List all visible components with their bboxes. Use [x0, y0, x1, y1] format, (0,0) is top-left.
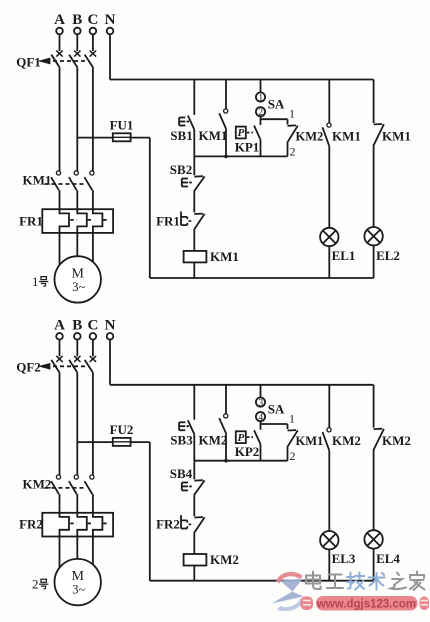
svg-text:KP1: KP1	[235, 140, 260, 155]
svg-text:C: C	[87, 317, 98, 333]
wire rail to SB3	[193, 385, 195, 420]
wire A to motor	[59, 536, 61, 568]
link box to contact	[247, 436, 253, 438]
overload NC contact FR2	[194, 516, 203, 518]
wire SA branch right	[261, 118, 288, 120]
svg-text:KM1: KM1	[23, 173, 52, 188]
pressure switch contact KP1 (NO)	[254, 126, 260, 140]
wire A breaker to contactor	[59, 373, 61, 476]
svg-text:KM2: KM2	[199, 432, 228, 447]
overload linkage (dashed)	[70, 219, 76, 221]
wire B to motor	[76, 233, 78, 256]
glyph hao of motor number	[41, 277, 47, 280]
terminal B	[74, 333, 81, 340]
aux NC contact KM2 for EL4	[374, 428, 383, 430]
glyph shu	[376, 573, 378, 590]
contactor coil KM2	[184, 554, 207, 566]
terminal N	[107, 333, 114, 340]
svg-text:3~: 3~	[72, 280, 85, 294]
aux NO contact KM2 for EL3	[327, 428, 331, 432]
stop pushbutton SB2 (NC)	[194, 175, 203, 177]
wire rail to KM1 aux	[225, 80, 227, 109]
glyph gong	[327, 575, 343, 589]
wire phase C to breaker	[92, 340, 94, 357]
svg-text:P: P	[238, 127, 245, 139]
terminal B	[74, 28, 81, 35]
node line joining branches	[194, 460, 287, 462]
glyph ji	[348, 573, 351, 589]
control bottom rail	[150, 277, 374, 279]
contactor linkage (dashed)	[45, 487, 87, 489]
wire coil to bottom rail	[193, 262, 195, 278]
svg-text:KP2: KP2	[235, 444, 260, 459]
glyph dian	[312, 572, 314, 586]
svg-text:KM1: KM1	[210, 249, 239, 264]
interlock NC contact KM2	[288, 124, 297, 126]
selector SA position 2	[256, 107, 265, 116]
svg-text:SA: SA	[268, 401, 285, 416]
link box to contact	[247, 132, 253, 134]
contactor KM1 main contacts	[56, 171, 60, 175]
heater element at x=92.9	[93, 513, 103, 536]
wire tap phase B to fuse FU1	[77, 137, 150, 139]
svg-text:KM2: KM2	[23, 476, 52, 491]
wire phase B to breaker	[76, 34, 78, 51]
svg-text:N: N	[105, 12, 116, 28]
wire C contactor to overload	[92, 190, 94, 209]
svg-text:SA: SA	[268, 97, 285, 112]
breaker linkage arrow	[41, 59, 49, 63]
wire phase B to breaker	[76, 340, 78, 357]
motor M 1	[54, 256, 100, 302]
svg-text:2: 2	[290, 449, 296, 463]
svg-text:1: 1	[258, 94, 263, 104]
svg-text:www.dgjs123.com: www.dgjs123.com	[316, 599, 416, 611]
wire fuse down to control bottom rail	[149, 442, 151, 581]
svg-text:A: A	[54, 12, 65, 28]
wire to interlock KM1	[287, 424, 289, 429]
watermark logo (site logo)	[272, 572, 306, 611]
contactor aux NO contact KM1	[224, 109, 228, 113]
selector SA position 4	[256, 412, 265, 421]
circuit breaker QF2	[56, 356, 62, 362]
start pushbutton SB1 (NO)	[188, 116, 194, 130]
wire rail to selector SA	[260, 80, 262, 93]
motor M 2	[54, 559, 100, 605]
wire tap phase B to fuse FU2	[77, 441, 150, 443]
svg-text:SB4: SB4	[170, 466, 193, 481]
overload actuator bracket	[181, 515, 187, 520]
wire A breaker to contactor	[59, 67, 61, 171]
junction	[224, 459, 228, 463]
start pushbutton SB3 (NO)	[188, 420, 194, 434]
wire phase C to breaker	[92, 34, 94, 51]
wire C breaker to contactor	[92, 67, 94, 171]
control top rail from N	[110, 384, 374, 386]
heater element at x=77.3	[77, 209, 87, 233]
wire SA branch right	[261, 423, 288, 425]
svg-text:1: 1	[289, 411, 295, 425]
wire A contactor to overload	[59, 494, 61, 513]
breaker QF2 linkage (dashed)	[46, 365, 89, 367]
wire rail to KM1 lamp contact 2	[373, 80, 375, 124]
svg-text:A: A	[54, 317, 65, 333]
svg-text:FR2: FR2	[19, 517, 43, 532]
pressure element box KP2	[236, 431, 246, 443]
contactor KM2 main contacts	[56, 475, 60, 479]
wire rail to selector SA	[260, 385, 262, 398]
svg-text:1: 1	[32, 274, 39, 289]
svg-text:SB2: SB2	[170, 162, 192, 177]
terminal C	[90, 28, 97, 35]
heater element at x=59.5	[60, 209, 70, 233]
wire neutral N down	[109, 34, 111, 79]
svg-text:FR1: FR1	[19, 213, 43, 228]
svg-text:KM2: KM2	[210, 552, 239, 567]
glyph jia	[416, 572, 418, 575]
wire B contactor to overload	[76, 190, 78, 209]
svg-text:KM2: KM2	[382, 433, 411, 448]
overload actuator bracket	[181, 212, 187, 217]
glyph zhi	[397, 573, 399, 576]
svg-text:KM1: KM1	[332, 129, 361, 144]
terminal C	[90, 333, 97, 340]
contactor aux NO contact KM2	[224, 414, 228, 418]
svg-text:KM2: KM2	[296, 130, 324, 144]
svg-text:FR2: FR2	[156, 517, 180, 532]
wire C contactor to overload	[92, 494, 94, 513]
watermark banner www.dgjs123.com	[301, 596, 430, 611]
wire C breaker to contactor	[92, 373, 94, 476]
wire neutral N down	[109, 340, 111, 385]
overload relay FR1 box	[42, 209, 113, 233]
junction	[224, 155, 228, 159]
wire A contactor to overload	[59, 190, 61, 209]
wire B breaker to contactor	[76, 373, 78, 476]
wire phase A to breaker	[59, 340, 61, 357]
control bottom rail	[150, 580, 374, 582]
svg-text:B: B	[72, 12, 82, 28]
overload linkage (dashed)	[70, 522, 76, 524]
pressure switch contact KP2 (NO)	[254, 430, 260, 444]
contactor linkage (dashed)	[45, 183, 87, 185]
svg-text:KM1: KM1	[382, 129, 411, 144]
wire rail to SB1	[193, 80, 195, 115]
aux NO contact KM1 for EL1	[327, 123, 331, 127]
circuit breaker QF1	[56, 51, 62, 57]
indicator lamp EL2	[364, 227, 382, 245]
indicator lamp EL3	[320, 531, 338, 549]
wire B contactor to overload	[76, 494, 78, 513]
wire fuse down to control bottom rail	[149, 138, 151, 278]
overload NC contact FR1	[194, 213, 203, 215]
terminal N	[107, 28, 114, 35]
svg-text:KM2: KM2	[332, 433, 361, 448]
wire A to motor	[59, 233, 61, 266]
breaker linkage arrow	[41, 364, 49, 368]
wire coil to bottom rail	[193, 565, 195, 580]
wire C to motor	[92, 233, 94, 266]
heater element at x=59.5	[60, 513, 70, 536]
wire to interlock KM2	[287, 119, 289, 124]
svg-text:2: 2	[32, 577, 39, 592]
wire SA down	[260, 116, 262, 125]
interlock NC contact KM1	[288, 429, 297, 431]
terminal A	[56, 28, 63, 35]
svg-text:FU1: FU1	[110, 118, 134, 133]
svg-text:EL2: EL2	[376, 248, 400, 263]
wire B breaker to contactor	[76, 67, 78, 171]
indicator lamp EL4	[364, 530, 382, 548]
terminal A	[56, 333, 63, 340]
svg-text:N: N	[105, 317, 116, 333]
heater element at x=92.9	[93, 209, 103, 233]
svg-text:3: 3	[258, 399, 263, 409]
control top rail from N	[110, 79, 374, 81]
stop pushbutton SB4 (NC)	[194, 479, 203, 481]
selector SA position 3	[256, 398, 265, 407]
svg-text:2: 2	[290, 145, 296, 159]
wire to stop button SB2	[193, 156, 195, 175]
svg-text:SB3: SB3	[170, 432, 193, 447]
overload relay FR2 box	[42, 513, 113, 537]
heater element at x=77.3	[77, 513, 87, 536]
contactor coil KM1	[184, 251, 207, 263]
fuse FU2	[113, 438, 131, 446]
svg-text:KM1: KM1	[296, 434, 324, 448]
pressure element box KP1	[236, 127, 246, 139]
selector SA position 1	[256, 92, 265, 101]
svg-text:SB1: SB1	[170, 128, 192, 143]
svg-text:EL4: EL4	[376, 551, 400, 566]
svg-text:1: 1	[289, 107, 295, 121]
svg-text:3~: 3~	[72, 583, 85, 597]
wire rail to KM2 aux	[225, 385, 227, 414]
wire rail to KM2 lamp contact 2	[373, 385, 375, 428]
breaker QF1 linkage (dashed)	[46, 60, 89, 62]
wire C to motor	[92, 536, 94, 569]
svg-text:EL3: EL3	[332, 551, 356, 566]
svg-text:EL1: EL1	[332, 248, 356, 263]
wire rail to KM1 lamp contact 1	[328, 80, 330, 123]
wire to stop button SB4	[193, 461, 195, 480]
node line joining branches	[194, 155, 287, 157]
glyph hao of motor number	[41, 579, 47, 582]
svg-text:QF1: QF1	[16, 54, 41, 69]
wire SA down	[260, 421, 262, 430]
fuse FU1	[113, 133, 131, 141]
svg-text:FR1: FR1	[156, 213, 180, 228]
wire rail to KM2 lamp contact 1	[328, 385, 330, 428]
svg-text:B: B	[72, 317, 82, 333]
svg-text:C: C	[87, 12, 98, 28]
wire phase A to breaker	[59, 34, 61, 51]
svg-text:P: P	[238, 432, 245, 444]
svg-text:KM1: KM1	[199, 128, 228, 143]
svg-text:FU2: FU2	[110, 422, 134, 437]
aux NC contact KM1 for EL2	[374, 123, 383, 125]
indicator lamp EL1	[320, 228, 338, 246]
svg-text:QF2: QF2	[16, 360, 41, 375]
wire B to motor	[76, 536, 78, 559]
